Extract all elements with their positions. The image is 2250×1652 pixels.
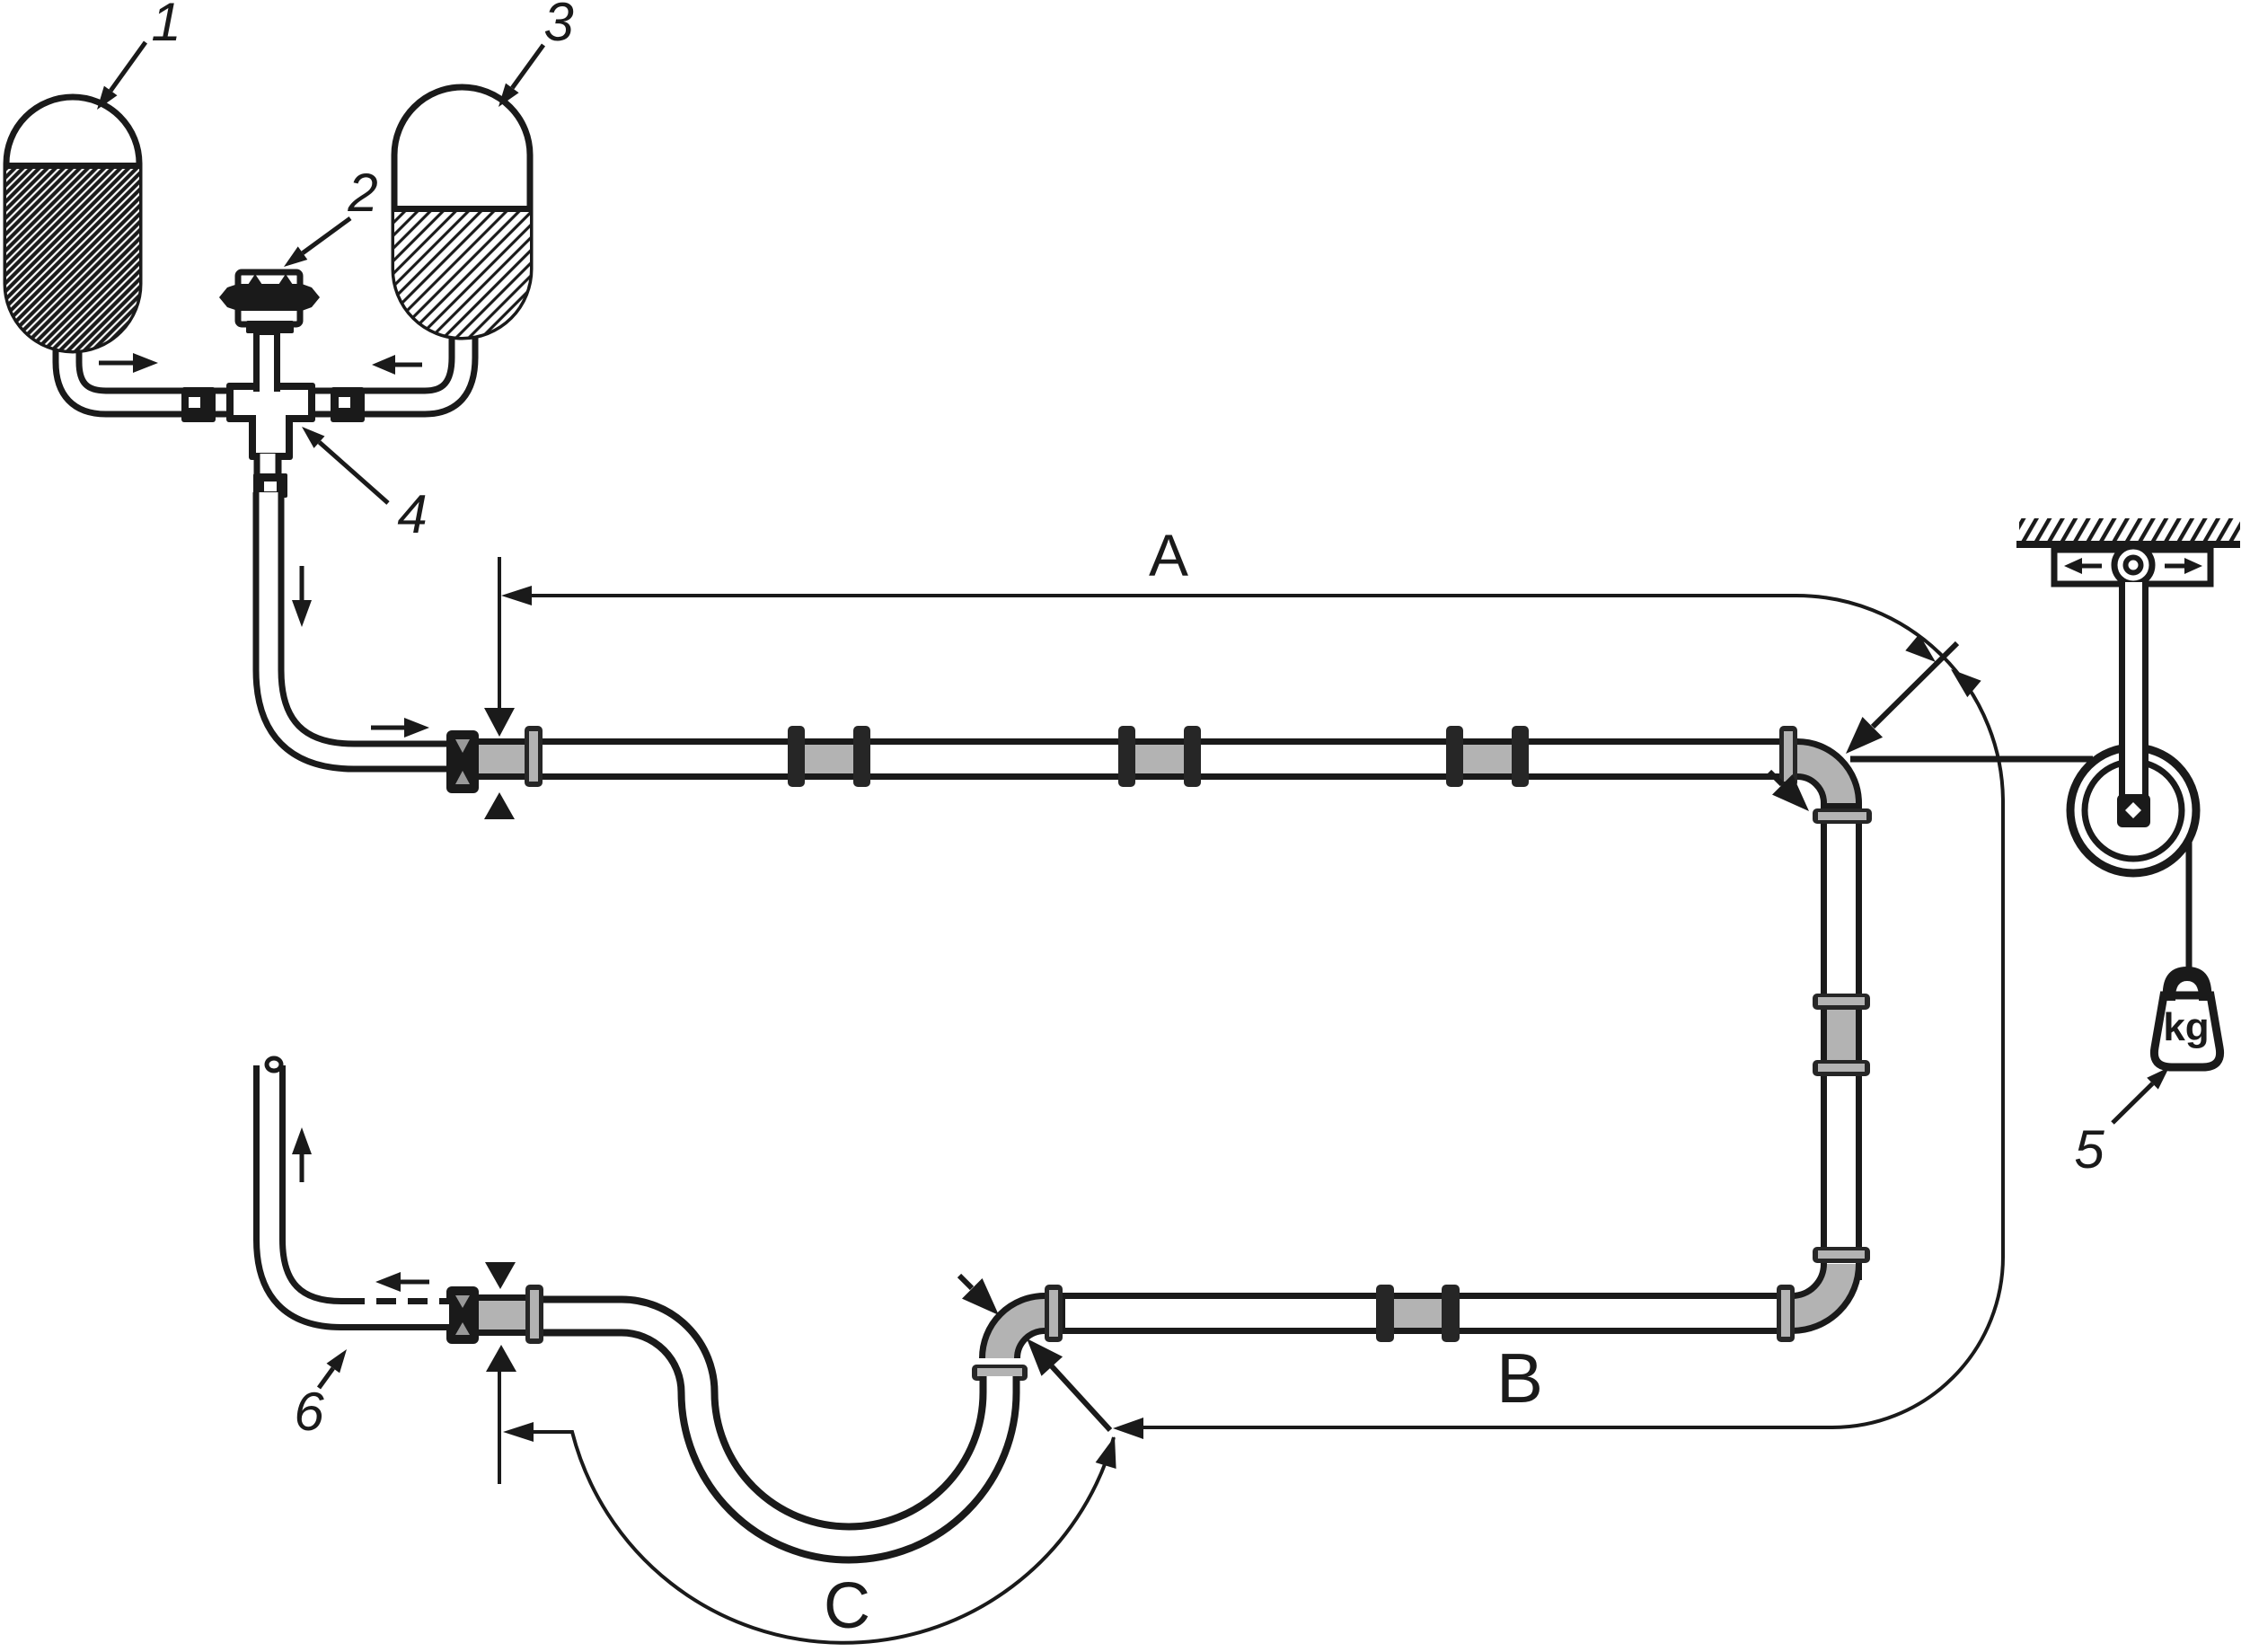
svg-text:A: A — [1149, 522, 1188, 588]
svg-text:5: 5 — [2074, 1119, 2104, 1179]
svg-text:B: B — [1496, 1338, 1543, 1418]
svg-text:1: 1 — [151, 0, 181, 52]
svg-text:kg: kg — [2163, 1005, 2209, 1049]
svg-text:2: 2 — [347, 163, 377, 223]
svg-text:C: C — [824, 1570, 870, 1642]
svg-text:3: 3 — [543, 0, 573, 52]
svg-text:6: 6 — [294, 1382, 324, 1442]
svg-text:4: 4 — [397, 484, 427, 544]
